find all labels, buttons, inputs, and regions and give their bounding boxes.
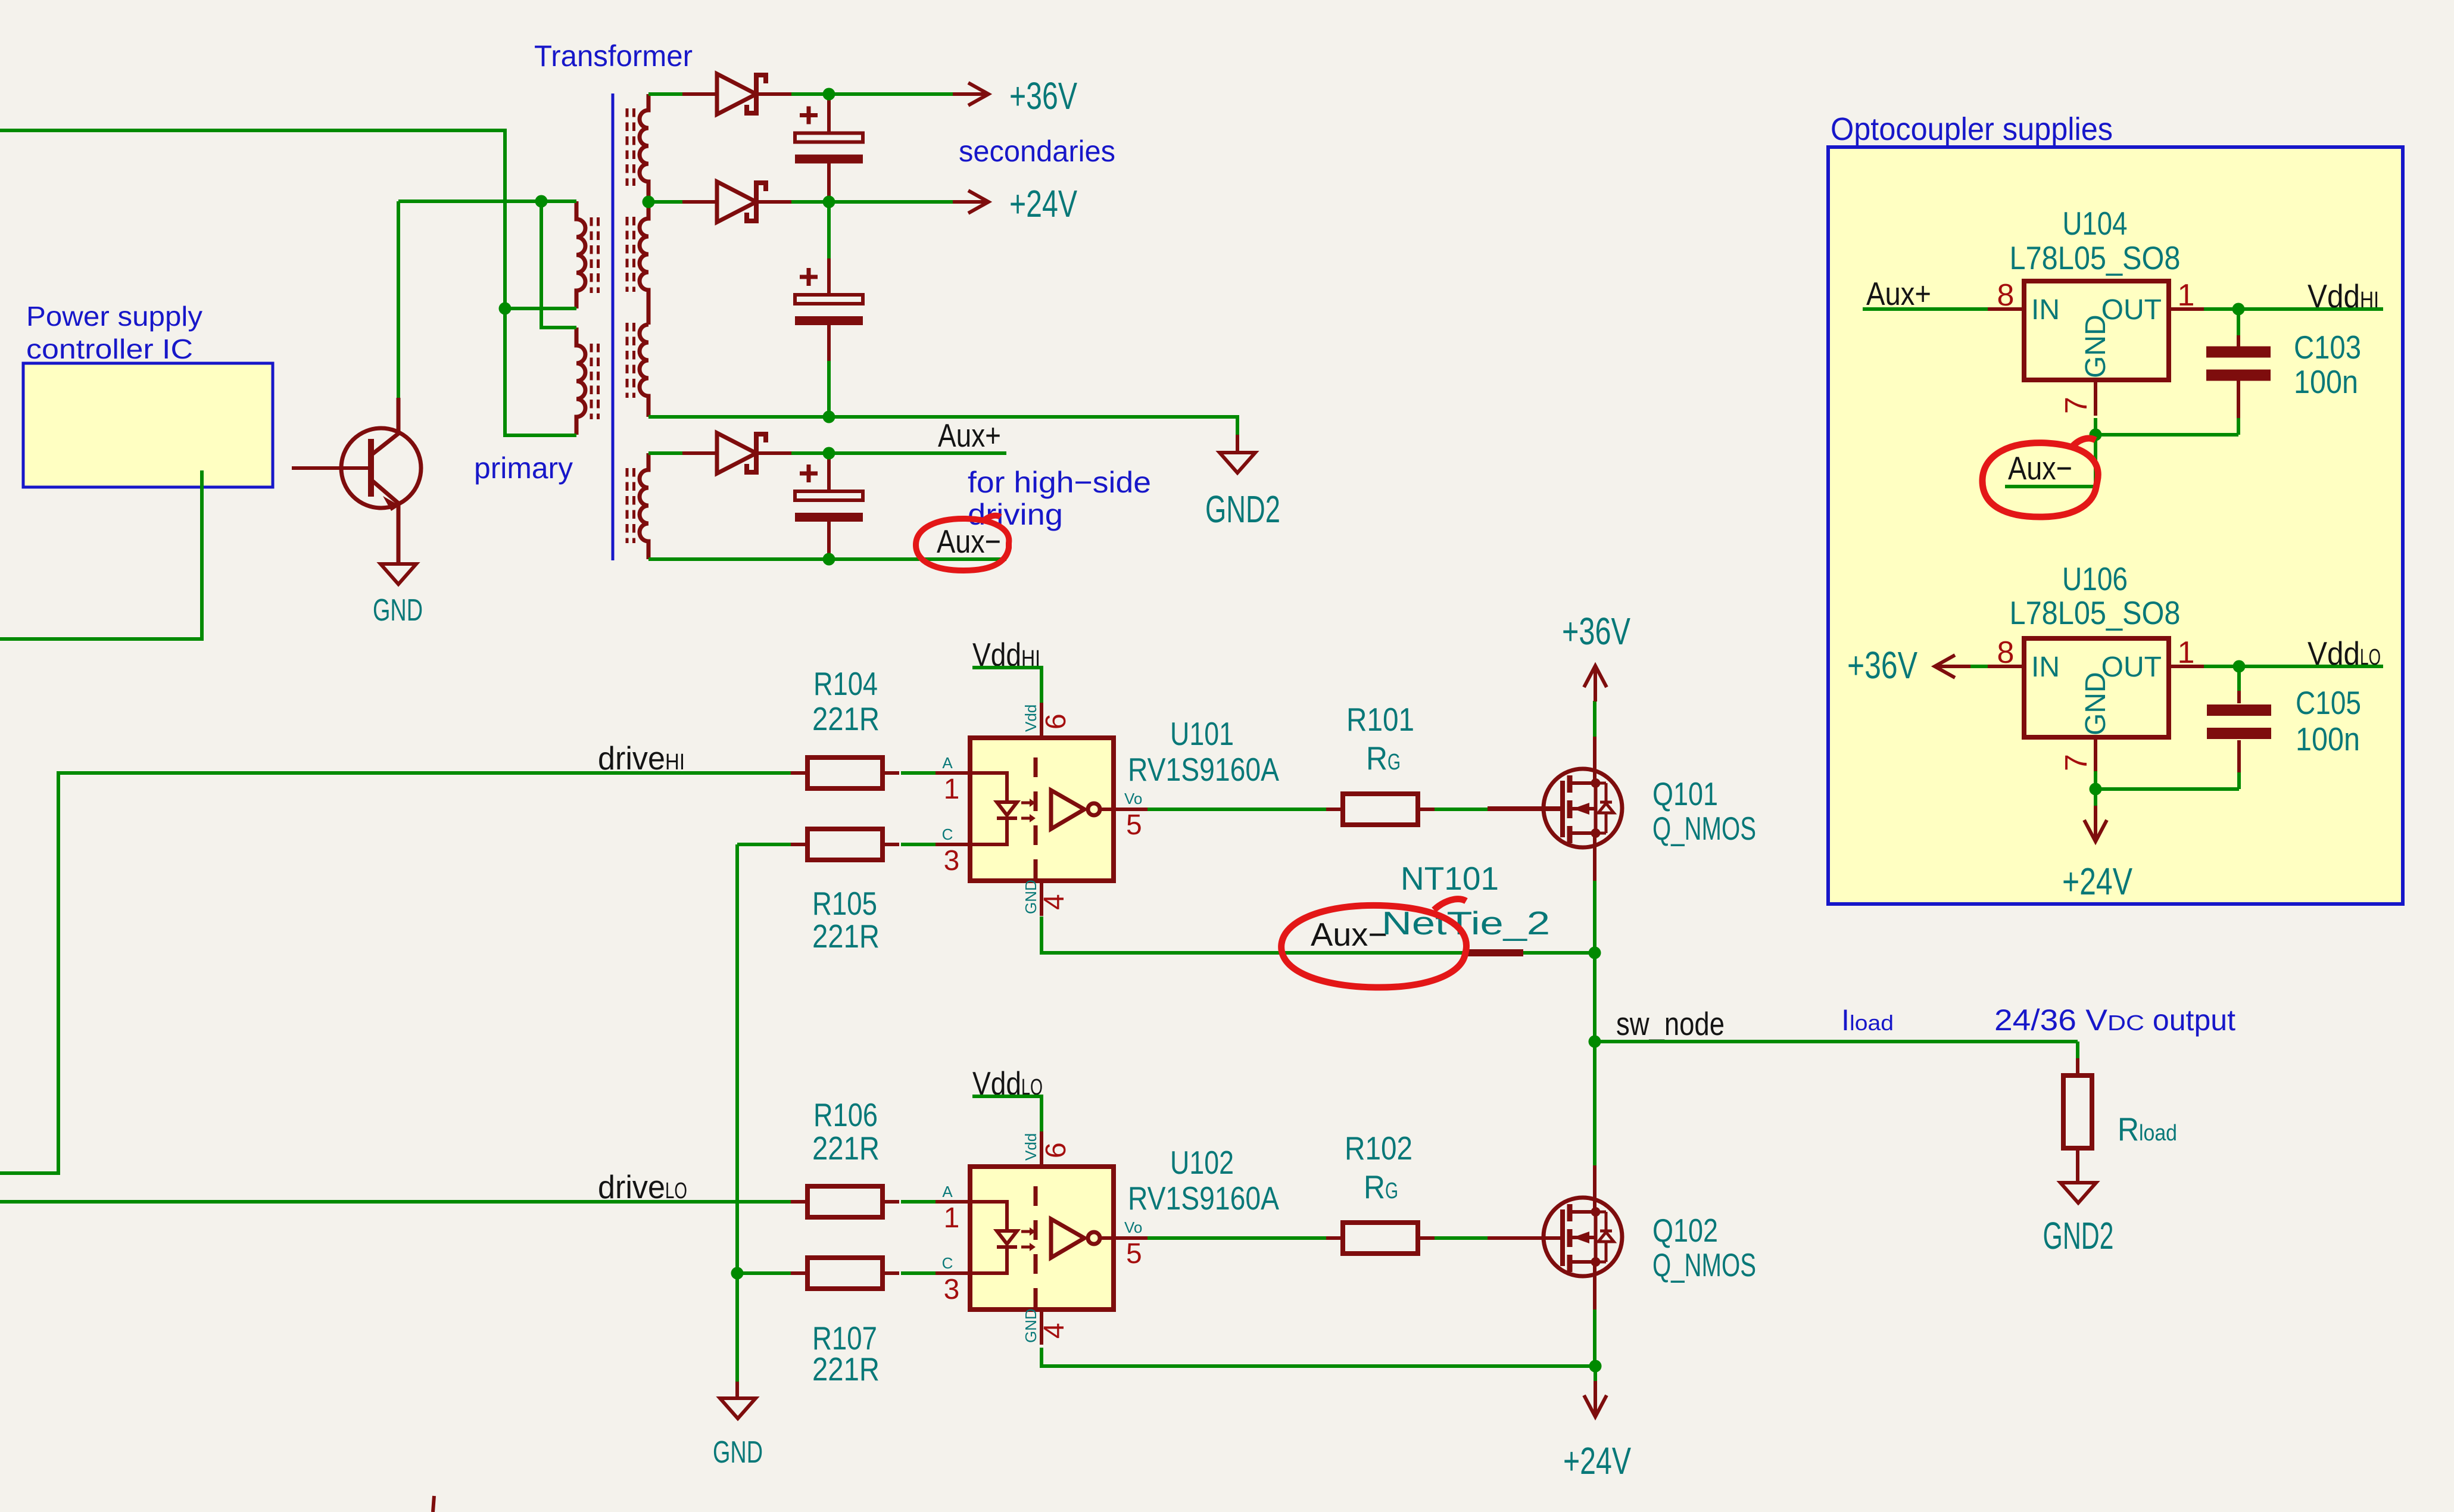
- svg-text:100n: 100n: [2296, 721, 2360, 757]
- svg-text:Aux+: Aux+: [938, 417, 1001, 454]
- svg-text:6: 6: [1040, 1142, 1072, 1158]
- svg-text:secondaries: secondaries: [959, 135, 1115, 168]
- svg-text:R101: R101: [1346, 701, 1414, 738]
- svg-text:4: 4: [1039, 1323, 1070, 1339]
- svg-text:controller IC: controller IC: [26, 333, 193, 364]
- svg-text:8: 8: [1997, 278, 2015, 313]
- svg-text:4: 4: [1039, 894, 1070, 910]
- svg-text:6: 6: [1040, 713, 1072, 729]
- svg-text:Power supply: Power supply: [26, 301, 202, 332]
- svg-text:driving: driving: [968, 498, 1063, 531]
- svg-text:GND2: GND2: [2043, 1214, 2114, 1257]
- svg-text:U101: U101: [1170, 715, 1234, 752]
- svg-text:R104: R104: [813, 665, 878, 702]
- svg-text:IN: IN: [2031, 651, 2060, 683]
- svg-text:7: 7: [2059, 397, 2094, 414]
- svg-text:+36V: +36V: [1562, 610, 1630, 653]
- svg-text:RV1S9160A: RV1S9160A: [1128, 751, 1279, 788]
- svg-text:Vo: Vo: [1124, 1218, 1142, 1236]
- svg-text:Aux−: Aux−: [2008, 450, 2072, 487]
- svg-text:GND: GND: [2080, 672, 2112, 735]
- svg-text:Q102: Q102: [1652, 1212, 1718, 1249]
- svg-text:3: 3: [944, 845, 960, 877]
- svg-text:C: C: [942, 1254, 953, 1272]
- svg-text:Aux−: Aux−: [1311, 916, 1387, 953]
- svg-text:7: 7: [2059, 754, 2094, 771]
- svg-text:Q_NMOS: Q_NMOS: [1652, 1246, 1756, 1283]
- svg-text:C: C: [942, 825, 953, 843]
- svg-text:Optocoupler supplies: Optocoupler supplies: [1831, 111, 2113, 147]
- svg-text:U104: U104: [2063, 205, 2128, 242]
- svg-text:U106: U106: [2062, 560, 2128, 597]
- svg-text:5: 5: [1126, 809, 1142, 841]
- svg-text:U102: U102: [1170, 1144, 1234, 1181]
- svg-text:sw_node: sw_node: [1616, 1005, 1725, 1042]
- svg-text:GND2: GND2: [1205, 488, 1280, 531]
- svg-text:L78L05_SO8: L78L05_SO8: [2010, 239, 2181, 276]
- svg-text:primary: primary: [474, 451, 573, 485]
- svg-text:RV1S9160A: RV1S9160A: [1128, 1180, 1279, 1217]
- svg-text:for high−side: for high−side: [968, 466, 1151, 499]
- svg-text:+24V: +24V: [2062, 860, 2132, 903]
- svg-text:Vo: Vo: [1124, 790, 1142, 808]
- svg-text:221R: 221R: [812, 1130, 880, 1167]
- svg-text:L78L05_SO8: L78L05_SO8: [2010, 594, 2181, 631]
- svg-text:5: 5: [1126, 1238, 1142, 1270]
- svg-text:Aux+: Aux+: [1866, 275, 1931, 312]
- svg-text:221R: 221R: [812, 1351, 880, 1388]
- svg-text:NT101: NT101: [1401, 860, 1499, 897]
- svg-text:1: 1: [944, 1202, 960, 1234]
- svg-text:IN: IN: [2031, 294, 2060, 326]
- svg-text:221R: 221R: [812, 700, 880, 737]
- svg-text:Q_NMOS: Q_NMOS: [1652, 810, 1756, 847]
- svg-text:+24V: +24V: [1009, 182, 1077, 225]
- svg-text:+24V: +24V: [1563, 1439, 1631, 1482]
- svg-text:A: A: [942, 1183, 953, 1201]
- svg-text:1: 1: [2178, 278, 2195, 313]
- svg-text:8: 8: [1997, 635, 2015, 670]
- svg-text:C103: C103: [2294, 329, 2361, 366]
- svg-text:GND: GND: [1022, 1308, 1040, 1343]
- svg-text:C105: C105: [2296, 684, 2361, 721]
- svg-text:Q101: Q101: [1652, 775, 1718, 812]
- svg-text:100n: 100n: [2294, 363, 2358, 400]
- svg-text:GND: GND: [2080, 314, 2112, 378]
- svg-text:1: 1: [2178, 635, 2195, 670]
- svg-text:GND: GND: [373, 593, 423, 628]
- svg-text:GND: GND: [1022, 880, 1040, 914]
- svg-text:Transformer: Transformer: [534, 39, 693, 73]
- svg-text:3: 3: [944, 1274, 960, 1305]
- svg-text:GND: GND: [713, 1435, 763, 1470]
- svg-text:1: 1: [944, 774, 960, 805]
- svg-text:221R: 221R: [812, 918, 880, 955]
- svg-text:Vdd: Vdd: [1022, 1133, 1040, 1161]
- svg-text:+36V: +36V: [1847, 644, 1917, 687]
- svg-text:R105: R105: [812, 885, 877, 922]
- svg-text:+36V: +36V: [1009, 74, 1077, 117]
- svg-text:A: A: [942, 754, 953, 772]
- svg-text:R106: R106: [813, 1096, 878, 1133]
- svg-text:Vdd: Vdd: [1022, 704, 1040, 732]
- svg-text:R102: R102: [1345, 1130, 1412, 1167]
